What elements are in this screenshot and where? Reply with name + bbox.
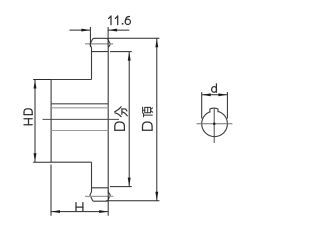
dim Dtop dimension line — [156, 38, 158, 201]
bottom tooth right flank hook — [108, 188, 110, 195]
bottom pitch line — [85, 195, 113, 197]
dim Dtop lower extension — [106, 200, 159, 202]
dim 11.6 left arrow — [81, 29, 90, 32]
dim d arrow left — [202, 93, 211, 96]
hub top line — [51, 79, 91, 81]
dim d arrow right — [218, 93, 227, 96]
dim d right extension — [226, 92, 228, 119]
keyway left side — [209, 109, 211, 113]
dim H dimension line — [51, 211, 108, 213]
right view vertical centerline — [213, 108, 215, 143]
keyway top arc — [210, 107, 218, 110]
keyway white cover — [211, 107, 218, 114]
bore top line — [51, 107, 108, 109]
dim H left extension — [50, 165, 52, 216]
dim HD dimension line — [34, 80, 36, 163]
sprocket bottom tooth tip — [90, 195, 110, 201]
plate left edge lower — [91, 162, 93, 188]
label 11.6 — [109, 16, 131, 25]
dim 11.6 right extension line — [107, 27, 109, 47]
center dot — [213, 123, 215, 125]
bore bottom line — [51, 130, 108, 132]
dim 11.6 left leader — [70, 29, 91, 31]
label d — [215, 84, 217, 92]
hub bottom line — [51, 161, 91, 163]
hub left edge — [50, 80, 52, 163]
dim H arrow left — [51, 210, 60, 213]
bottom tooth left flank hook — [90, 188, 92, 195]
label Dtop rotated — [143, 107, 153, 130]
label H — [75, 203, 77, 211]
sprocket top tooth tip — [90, 38, 110, 44]
plate left edge upper — [91, 52, 93, 80]
bore circle — [202, 111, 228, 137]
dim 11.6 left extension line — [89, 27, 91, 47]
dim 11.6 right arrow — [108, 29, 117, 32]
dim H arrow right — [99, 210, 108, 213]
dim Dpitch arrow up — [128, 52, 131, 61]
plate right edge — [107, 52, 109, 188]
dim Dtop arrow up — [155, 38, 158, 47]
dim H right extension — [107, 190, 109, 216]
bottom tooth root line — [91, 187, 109, 189]
dim Dpitch arrow down — [128, 178, 131, 187]
top tooth root line — [91, 51, 109, 53]
dim 11.6 right leader — [108, 29, 129, 31]
axis centerline — [43, 118, 120, 120]
dim Dtop arrow down — [155, 192, 158, 201]
label Dpitch rotated — [115, 107, 128, 131]
dim HD arrow down — [34, 153, 37, 162]
dim Dpitch dimension line — [128, 52, 130, 187]
top tooth left flank hook — [90, 44, 92, 51]
dim HD lower extension — [33, 161, 51, 163]
dim Dpitch upper extension — [110, 51, 132, 53]
top pitch line — [85, 43, 113, 45]
right view horizontal centerline — [197, 123, 233, 125]
keyway line — [51, 103, 108, 105]
dim HD arrow up — [34, 80, 37, 89]
keyway right side — [217, 109, 219, 113]
dim HD upper extension — [33, 79, 51, 81]
dim Dpitch lower extension — [110, 186, 132, 188]
label HD rotated — [24, 109, 32, 125]
top tooth right flank hook — [108, 44, 110, 51]
dim Dtop upper extension — [108, 37, 160, 39]
dim d left extension — [201, 92, 203, 119]
dim d dimension line — [202, 94, 228, 96]
